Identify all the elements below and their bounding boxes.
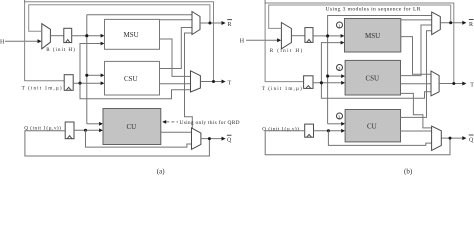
sequence step circle 3 (b) xyxy=(337,113,343,119)
wire mux M5 output to register R (b) xyxy=(291,35,305,37)
node Qbar output label (a) xyxy=(227,135,232,143)
mux M2 Rbar output select (a) xyxy=(192,12,200,35)
wire vertical from Rbar mux input 4 to Qbar mux input 1 (a) xyxy=(185,33,193,129)
wire Q loop to Qbar mux lower input (b) xyxy=(328,131,431,146)
wire R feedback from Rbar output to mux M1 top input (a) xyxy=(29,5,210,32)
wire CSU output A to Rbar mux input 3 (b) xyxy=(401,25,432,76)
wire Rbar mux output (a) xyxy=(200,21,226,25)
mux M4 Qbar output select (a) xyxy=(192,128,201,149)
module CSU (b) xyxy=(345,60,400,95)
register T (a) xyxy=(64,75,73,91)
svg-text:R: R xyxy=(469,22,473,28)
node Rbar output label (a) xyxy=(227,20,232,28)
wire T bus vertical to MSU input 2 (a) xyxy=(80,42,104,84)
wire CSU output B to T mux input 2 (b) xyxy=(401,83,432,85)
wire R bus vertical (a) xyxy=(86,15,88,124)
module MSU (b) xyxy=(345,19,401,53)
node Qbar output label (b) xyxy=(469,135,474,143)
sequence step circle 1 (b) xyxy=(337,22,343,28)
module CU (b) xyxy=(345,110,400,142)
wire Q loop to Qbar mux lower input (a) xyxy=(86,130,192,147)
wire R bus to CU input 1 (a) xyxy=(87,122,103,126)
junction Rbar output (a) xyxy=(208,22,211,25)
svg-text:T (init 1m,µ): T (init 1m,µ) xyxy=(262,85,302,92)
module CSU (a) xyxy=(105,61,160,95)
mux M5 input-select (b) xyxy=(281,23,291,49)
wire register R output to MSU input 1 (a) xyxy=(72,34,105,38)
svg-text:CU: CU xyxy=(127,123,137,131)
wire R bus to CSU input 1 (a) xyxy=(87,73,105,77)
wire CSU output A to Rbar mux input 3 (a) xyxy=(160,28,193,69)
wire register R output to MSU input 1 (b) xyxy=(313,34,344,38)
wire T bus under CSU to T mux input 3 (a) xyxy=(80,83,191,99)
svg-text:CSU: CSU xyxy=(366,75,380,83)
wire CSU output B to T mux input 2 (a) xyxy=(160,83,191,85)
wire left border stub (a) xyxy=(24,0,26,3)
wire CU output to Qbar mux input 2 (a) xyxy=(161,131,192,133)
svg-text:CSU: CSU xyxy=(124,75,138,83)
wire T bus vertical to MSU input 2 (b) xyxy=(321,41,344,83)
wire H input (a) xyxy=(5,39,42,43)
wire T bus under CSU to T mux input 3 (b) xyxy=(321,83,431,98)
junction R register output (a) xyxy=(85,34,88,37)
junction R register output (b) xyxy=(326,34,329,37)
wire Qbar mux output (b) xyxy=(441,136,466,140)
sequence step circle 2 (b) xyxy=(337,65,343,71)
register Q (b) xyxy=(305,124,314,137)
wire R bus to CSU input 1 (b) xyxy=(328,74,345,78)
svg-text:(a): (a) xyxy=(157,167,165,175)
junction Qbar output (b) xyxy=(449,137,452,140)
wire CU output A to Rbar mux input 4 (b) xyxy=(401,31,432,118)
wire R feedback to Rbar mux input 1 (b) xyxy=(328,16,432,36)
junction T output (a) xyxy=(212,80,215,83)
mux M6 Rbar output select (b) xyxy=(432,12,441,34)
junction Qbar output (a) xyxy=(208,137,211,140)
wire Q feedback from Qbar output to register Q input (b) xyxy=(265,131,450,155)
svg-text:Q (init 1(µ,ν)): Q (init 1(µ,ν)) xyxy=(262,126,299,133)
junction T register output (a) xyxy=(78,82,81,85)
mux M8 Qbar output select (b) xyxy=(432,126,442,150)
junction Rbar output (b) xyxy=(449,21,452,24)
junction T register output (b) xyxy=(320,81,323,84)
wire register Q output to CU input 2 (b) xyxy=(314,129,346,133)
wire left border stub (b) xyxy=(264,0,266,4)
svg-text:MSU: MSU xyxy=(124,31,139,39)
mux M7 T output select (b) xyxy=(431,71,439,96)
junction T output (b) xyxy=(452,82,455,85)
svg-text:Using only this for QRD: Using only this for QRD xyxy=(180,119,240,126)
wire R bus vertical (b) xyxy=(327,36,329,124)
module CU (a) xyxy=(103,109,161,145)
wire T feedback from T output to register T input (b) xyxy=(265,3,454,84)
junction R bus at CSU row (b) xyxy=(326,75,329,78)
wire T mux output (a) xyxy=(200,80,225,84)
svg-text:R: R xyxy=(228,22,232,28)
wire register T output to CSU input 2 (a) xyxy=(73,81,104,85)
wire T feedback from T output to register T input (a) xyxy=(25,2,214,82)
wire register Q output to CU input 2 (a) xyxy=(74,128,103,132)
annotation dashed arrow Using only this for QRD (a) xyxy=(162,119,239,126)
wire H input (b) xyxy=(246,38,281,42)
wire register T output to CSU input 2 (b) xyxy=(313,81,345,85)
wire R bus to Rbar mux input 1 (a) xyxy=(87,14,192,16)
junction Q register output (b) xyxy=(327,129,330,132)
svg-text:T (init 1m,µ): T (init 1m,µ) xyxy=(22,84,62,91)
wire R feedback from Rbar output to mux M5 top input (b) xyxy=(269,5,451,28)
svg-text:R (init H): R (init H) xyxy=(46,46,75,53)
svg-text:Q: Q xyxy=(469,137,474,143)
register T (b) xyxy=(304,76,313,89)
register R (b) xyxy=(305,28,313,43)
wire Rbar mux output (b) xyxy=(440,21,466,25)
wire MSU output B to T mux input 1 (a) xyxy=(160,39,191,76)
wire MSU output A to Rbar mux input 2 (b) xyxy=(401,19,432,21)
wire T mux output (b) xyxy=(439,82,466,86)
svg-text:H: H xyxy=(0,40,5,46)
svg-text:Q: Q xyxy=(227,138,232,144)
mux M1 input-select (a) xyxy=(42,24,51,49)
wire mux M1 output to register R (a) xyxy=(50,35,63,37)
svg-text:T: T xyxy=(470,83,474,89)
svg-text:T: T xyxy=(228,81,232,87)
svg-text:MSU: MSU xyxy=(365,32,380,40)
wire R bus to CU input 1 (b) xyxy=(328,122,345,126)
mux M3 T output select (a) xyxy=(191,71,201,92)
svg-text:Using 3 modules in sequence fo: Using 3 modules in sequence for LR xyxy=(326,6,421,13)
wire Qbar mux output (a) xyxy=(201,137,226,141)
wire CU output B to Qbar mux input 2 (b) xyxy=(401,130,432,132)
module MSU (a) xyxy=(105,19,160,49)
register R (a) xyxy=(64,28,72,42)
svg-text:H: H xyxy=(240,39,245,45)
wire MSU output B to T mux input 1 (b) xyxy=(401,37,431,75)
wire CSU output C to Qbar mux input 1 (b) xyxy=(401,93,432,128)
junction Q register output (a) xyxy=(84,129,87,132)
svg-text:(b): (b) xyxy=(404,167,413,175)
register Q (a) xyxy=(65,122,74,139)
wire Q feedback from Qbar output to register Q input (a) xyxy=(25,131,210,156)
node Rbar output label (b) xyxy=(469,20,474,28)
svg-text:CU: CU xyxy=(367,122,377,130)
wire MSU output A to Rbar mux input 2 (a) xyxy=(160,19,193,21)
svg-text:R (init H): R (init H) xyxy=(270,47,303,54)
junction R bus at CSU row (a) xyxy=(85,74,88,77)
